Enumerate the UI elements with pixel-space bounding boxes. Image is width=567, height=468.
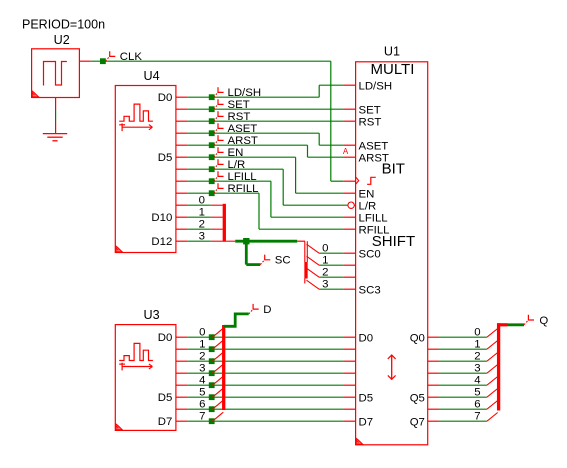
svg-text:0: 0: [474, 327, 480, 339]
svg-text:0: 0: [199, 327, 205, 339]
svg-text:3: 3: [199, 231, 205, 243]
svg-text:3: 3: [322, 279, 328, 291]
svg-text:SC: SC: [275, 255, 291, 267]
svg-text:0: 0: [199, 195, 205, 207]
svg-text:D0: D0: [158, 332, 173, 344]
svg-text:D12: D12: [151, 236, 172, 248]
svg-text:1: 1: [322, 255, 328, 267]
svg-text:D0: D0: [158, 92, 173, 104]
svg-text:D5: D5: [359, 392, 374, 404]
svg-text:1: 1: [199, 339, 205, 351]
svg-text:6: 6: [199, 399, 205, 411]
svg-text:U3: U3: [144, 308, 160, 322]
svg-text:Q: Q: [539, 315, 548, 327]
svg-text:SET: SET: [359, 104, 381, 116]
svg-text:3: 3: [474, 363, 480, 375]
svg-text:0: 0: [322, 243, 328, 255]
svg-text:RST: RST: [359, 116, 382, 128]
svg-text:D0: D0: [359, 332, 374, 344]
svg-text:MULTI: MULTI: [371, 61, 415, 78]
svg-text:U1: U1: [384, 45, 400, 59]
svg-text:6: 6: [474, 399, 480, 411]
svg-text:LD/SH: LD/SH: [359, 80, 393, 92]
svg-text:D10: D10: [151, 212, 172, 224]
svg-text:4: 4: [474, 375, 480, 387]
svg-text:CLK: CLK: [120, 51, 143, 63]
svg-text:D5: D5: [158, 392, 173, 404]
svg-text:2: 2: [199, 219, 205, 231]
svg-text:D7: D7: [158, 416, 173, 428]
svg-text:3: 3: [199, 363, 205, 375]
svg-text:ARST: ARST: [359, 152, 389, 164]
svg-text:D: D: [263, 304, 271, 316]
svg-text:2: 2: [322, 267, 328, 279]
svg-text:Q5: Q5: [410, 392, 425, 404]
svg-text:5: 5: [474, 387, 480, 399]
svg-text:D7: D7: [359, 416, 374, 428]
svg-text:RFILL: RFILL: [359, 224, 390, 236]
svg-text:EN: EN: [359, 188, 375, 200]
svg-text:L/R: L/R: [359, 200, 377, 212]
svg-text:LFILL: LFILL: [359, 212, 388, 224]
svg-text:2: 2: [199, 351, 205, 363]
svg-text:Q0: Q0: [410, 332, 425, 344]
svg-text:A: A: [343, 147, 349, 156]
svg-text:7: 7: [199, 411, 205, 423]
svg-text:4: 4: [199, 375, 205, 387]
svg-text:U4: U4: [144, 69, 160, 83]
svg-text:U2: U2: [54, 33, 70, 47]
svg-text:1: 1: [199, 207, 205, 219]
svg-text:1: 1: [474, 339, 480, 351]
svg-text:5: 5: [199, 387, 205, 399]
svg-text:PERIOD=100n: PERIOD=100n: [22, 18, 105, 32]
svg-text:D5: D5: [158, 152, 173, 164]
svg-text:Q7: Q7: [410, 416, 425, 428]
svg-text:2: 2: [474, 351, 480, 363]
svg-text:SC3: SC3: [359, 284, 381, 296]
svg-text:7: 7: [474, 411, 480, 423]
svg-text:SC0: SC0: [359, 248, 381, 260]
svg-text:ASET: ASET: [359, 140, 389, 152]
